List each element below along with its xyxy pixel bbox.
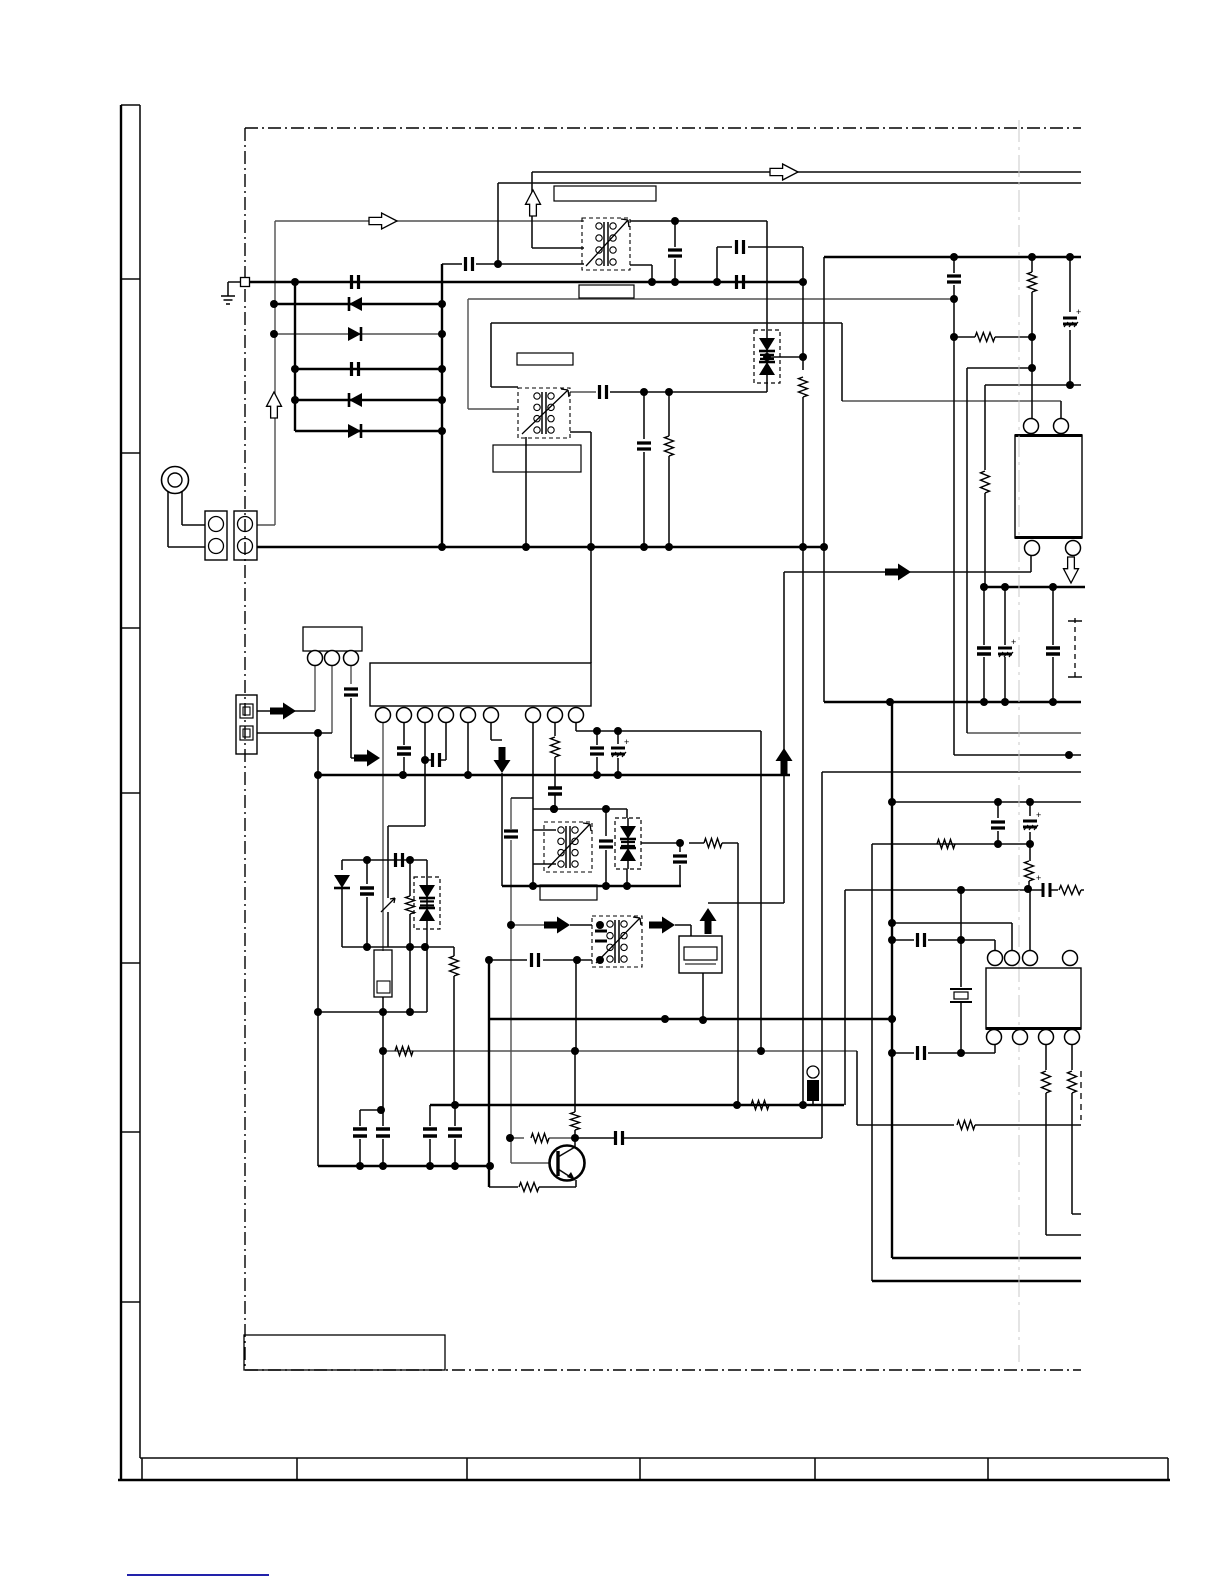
svg-text:+: + — [1036, 873, 1041, 883]
svg-text:+: + — [1036, 810, 1041, 820]
svg-text:+: + — [1076, 307, 1081, 317]
svg-text:+: + — [624, 737, 629, 747]
svg-text:+: + — [1011, 637, 1016, 647]
